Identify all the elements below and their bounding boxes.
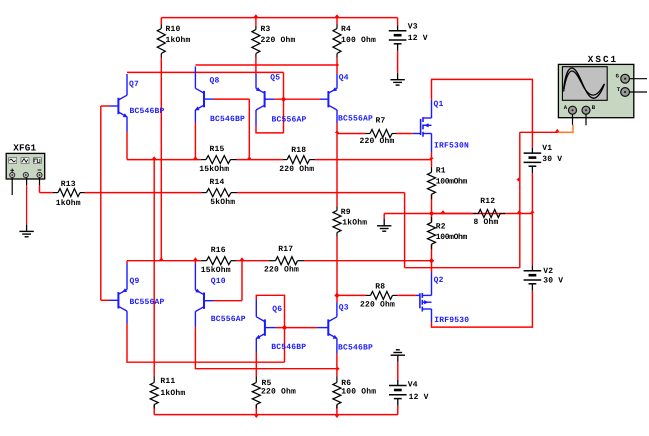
label R1 value [436, 177, 468, 186]
wire R7 lead right to Q1 gate [396, 133, 412, 135]
wire input node vertical [100, 106, 102, 300]
wire bottom rail [154, 414, 398, 416]
svg-text:BC556AP: BC556AP [211, 315, 246, 324]
label Q6 part [271, 343, 306, 352]
svg-text:R9: R9 [341, 208, 351, 217]
wire scope A orange segment [558, 125, 573, 133]
resistor R10 [157, 25, 165, 58]
transistor Q4 [320, 74, 337, 123]
label R16 value [201, 266, 231, 275]
label R14 value [210, 198, 235, 207]
junction R4 top [335, 14, 339, 17]
svg-text:G: G [616, 73, 620, 80]
wire Q10 base horizontal [214, 300, 243, 302]
label R5 [262, 379, 272, 388]
transistor Q5 [256, 74, 274, 126]
wire output ground stub [383, 214, 385, 220]
junction scope A color [555, 129, 559, 132]
label Q8 [210, 76, 220, 85]
wire feedback bottom run [405, 267, 520, 269]
wire output line [384, 213, 532, 215]
label Q4 [339, 74, 349, 83]
resistor R7 [365, 130, 396, 138]
transistor Q10 [195, 264, 213, 327]
junction bottom rail R10 [159, 257, 163, 260]
label V3 [408, 23, 418, 32]
svg-text:BC546BP: BC546BP [210, 115, 245, 124]
svg-text:R5: R5 [262, 379, 272, 388]
junction V1V2 mid [530, 210, 534, 213]
label R9 value [342, 219, 367, 228]
svg-text:R18: R18 [291, 146, 306, 155]
label V2 [543, 267, 553, 276]
transistor Q3 [317, 303, 338, 354]
svg-text:Q1: Q1 [434, 100, 444, 109]
svg-text:BC556AP: BC556AP [338, 115, 373, 124]
svg-text:R3: R3 [261, 25, 271, 34]
svg-text:220 Ohm: 220 Ohm [261, 388, 296, 397]
svg-text:R10: R10 [166, 25, 181, 34]
wire V4 top to ground [397, 362, 399, 382]
wire R6 bottom [336, 405, 338, 415]
svg-text:R1: R1 [436, 167, 446, 176]
label R2 [436, 222, 446, 231]
svg-text:XFG1: XFG1 [13, 142, 36, 153]
resistor R11 [150, 377, 158, 409]
resistor R14 [202, 189, 238, 197]
wire R5 bottom [255, 405, 257, 415]
wire Q8 base horizontal [214, 98, 250, 100]
label Q5 [270, 74, 280, 83]
svg-text:R12: R12 [480, 197, 495, 206]
wire XFG pin2 to ground [26, 185, 28, 225]
junction Q6 base node [282, 325, 287, 330]
wire R9 link lower [336, 237, 338, 303]
resistor R5 [252, 377, 260, 409]
transistor Q6 [256, 300, 276, 353]
resistor R16 [201, 257, 237, 265]
wire R4 top stub [336, 18, 338, 25]
label Q9 part [130, 298, 165, 307]
transistor Q1 IRF530N [413, 100, 432, 152]
svg-text:BC546BP: BC546BP [130, 107, 165, 116]
wire R11 bottom [153, 405, 155, 415]
resistor R9 [333, 207, 341, 237]
junction R8 gate node [334, 293, 339, 298]
label R2 value [436, 233, 468, 242]
label Q5 part [272, 116, 307, 125]
wire R4 to Q4 emitter [336, 58, 338, 75]
svg-text:100mOhm: 100mOhm [436, 233, 468, 242]
svg-text:V3: V3 [408, 23, 418, 32]
label R5 value [261, 388, 296, 397]
wire Q10 emitter rise [194, 261, 196, 264]
svg-text:B: B [592, 104, 596, 111]
wire Q10 base vertical [241, 261, 243, 301]
label R11 value [160, 389, 185, 398]
label R7 value [360, 137, 395, 146]
label V1 [542, 144, 552, 153]
resistor R2 [428, 217, 436, 249]
transistor Q2 IRF9530 [416, 273, 432, 323]
label R4 [341, 25, 351, 34]
svg-text:BC556AP: BC556AP [130, 298, 165, 307]
wire output sense vertical [519, 132, 521, 267]
svg-text:IRF9530: IRF9530 [434, 316, 469, 325]
wire Q1 drain feed [432, 79, 533, 147]
resistor R15 [201, 156, 237, 164]
label V4 value [409, 393, 429, 402]
label Q2 part [434, 316, 469, 325]
label R13 [61, 180, 76, 189]
label R1 [436, 167, 446, 176]
svg-text:Q8: Q8 [210, 76, 220, 85]
wire bias chain vertical lower [284, 328, 286, 363]
wire Q6-Q3 base link [276, 327, 317, 329]
resistor R6 [333, 377, 341, 409]
wire top emitter rail left [127, 159, 201, 161]
svg-text:220 Ohm: 220 Ohm [360, 300, 395, 309]
svg-text:R7: R7 [376, 117, 386, 126]
svg-text:220 Ohm: 220 Ohm [261, 36, 296, 45]
svg-text:R4: R4 [341, 25, 351, 34]
wire Q1 source to R1 [431, 152, 433, 167]
label R17 value [264, 266, 299, 275]
label R15 [210, 145, 225, 154]
label R14 [210, 178, 225, 187]
junction Q5 base node [281, 97, 286, 102]
wire +12V top rail [161, 17, 397, 19]
label R12 [480, 197, 495, 206]
svg-text:R8: R8 [375, 283, 385, 292]
wire V3 top stub [397, 18, 399, 26]
svg-text:15kOhm: 15kOhm [201, 266, 231, 275]
battery V2 [524, 265, 542, 290]
label R12 value [474, 218, 499, 227]
label Q1 part [434, 142, 469, 151]
label Q1 [434, 100, 444, 109]
wire Q5-Q4 base link [274, 98, 320, 100]
wire R3 to Q5 emitter [255, 58, 257, 75]
svg-text:100 Ohm: 100 Ohm [341, 36, 376, 45]
transistor Q9 [110, 264, 128, 324]
label Q3 [339, 303, 349, 312]
svg-text:IRF530N: IRF530N [434, 142, 469, 151]
label R15 value [199, 165, 229, 174]
svg-text:R14: R14 [210, 178, 225, 187]
label Q7 part [130, 107, 165, 116]
wire R6 top [336, 369, 338, 377]
wire R2 to Q2 source [431, 244, 433, 272]
label R6 [341, 379, 351, 388]
wire V1 bottom to mid [531, 173, 533, 213]
label Q10 part [211, 315, 246, 324]
label Q8 part [210, 115, 245, 124]
label R17 [278, 245, 293, 254]
resistor R1 [428, 167, 436, 199]
wire Q3 emitter drop [336, 354, 338, 369]
svg-text:Q4: Q4 [339, 74, 349, 83]
svg-text:R17: R17 [278, 245, 293, 254]
wire top emitter rail right [315, 159, 432, 161]
svg-text:R6: R6 [341, 379, 351, 388]
label R6 value [341, 388, 376, 397]
label R7 [376, 117, 386, 126]
wire R14 elbow down [404, 193, 406, 268]
svg-text:12 V: 12 V [408, 34, 428, 43]
wire Q5 collector elbow [256, 126, 284, 133]
svg-text:Q6: Q6 [272, 305, 282, 314]
svg-text:Q5: Q5 [270, 74, 280, 83]
svg-text:220 Ohm: 220 Ohm [279, 165, 314, 174]
label R4 value [341, 36, 376, 45]
wire scope A red segment [520, 131, 558, 133]
wire XFG pin1 stub [11, 178, 13, 196]
svg-text:V2: V2 [543, 267, 553, 276]
svg-text:BC546BP: BC546BP [271, 343, 306, 352]
wire Q8 collector rail y65 [195, 64, 337, 66]
wire scope B pin [585, 114, 587, 125]
svg-text:T: T [617, 86, 621, 93]
wire bottom emitter rail mid [237, 260, 270, 262]
resistor R18 [283, 156, 315, 164]
ground V3 [390, 73, 404, 85]
ground V4 [391, 350, 405, 362]
label Q7 [129, 80, 139, 89]
junction R6 bottom [335, 415, 339, 418]
wire Q9 collector drop [127, 324, 285, 363]
junction emitter rail Q1 source [429, 156, 433, 159]
wire Q7 collector rail y72 [127, 71, 284, 73]
svg-text:30 V: 30 V [542, 155, 562, 164]
junction output R1R2 [429, 211, 434, 216]
wire top emitter rail mid [237, 159, 284, 161]
wire bias chain vertical upper [283, 72, 285, 132]
label R3 value [261, 36, 296, 45]
label R8 [375, 283, 385, 292]
junction bottom rail Q10b [240, 257, 244, 260]
wire R8 lead right to Q2 gate [397, 294, 416, 296]
svg-text:15kOhm: 15kOhm [199, 165, 229, 174]
wire R13-R14 link [85, 192, 202, 194]
wire bottom emitter rail right [304, 260, 432, 262]
label R8 value [360, 300, 395, 309]
label Q2 [434, 276, 444, 285]
wire Q2 drain to V2 [432, 291, 533, 327]
wire V3 to ground [397, 51, 399, 73]
label Q3 part [338, 343, 373, 352]
svg-text:100mOhm: 100mOhm [436, 177, 468, 186]
battery V4 [389, 380, 407, 405]
label R13 value [56, 199, 81, 208]
svg-text:220 Ohm: 220 Ohm [264, 266, 299, 275]
junction R5 bottom [254, 415, 258, 418]
resistor R4 [333, 25, 341, 58]
wire Q8 base vertical [248, 99, 250, 160]
wire Q7 emitter drop [126, 132, 128, 160]
wire R9 link upper [336, 123, 338, 207]
svg-text:1kOhm: 1kOhm [56, 199, 81, 208]
wire V4 bottom stub [397, 406, 399, 415]
junction sense marker [516, 177, 519, 181]
oscilloscope XSC1 [558, 64, 647, 117]
wire scope A pin [572, 114, 574, 125]
svg-text:R2: R2 [436, 222, 446, 231]
junction R3 top [254, 14, 258, 17]
svg-text:R15: R15 [210, 145, 225, 154]
junction emitter rail R11 [152, 156, 156, 159]
svg-text:30 V: 30 V [543, 277, 563, 286]
wire Q10 collector drop [195, 327, 337, 369]
junction emitter rail Q8b [247, 156, 251, 159]
svg-text:Q3: Q3 [339, 303, 349, 312]
junction bottom rail Q10e [193, 257, 197, 260]
svg-text:Q9: Q9 [130, 277, 140, 286]
transistor Q8 [195, 67, 214, 123]
label XSC1 [588, 54, 618, 65]
battery V1 [524, 148, 542, 173]
resistor R8 [366, 291, 397, 299]
wire R14 right line [237, 192, 405, 194]
label R18 [291, 146, 306, 155]
svg-text:Q2: Q2 [434, 276, 444, 285]
junction bottom rail Q2 source [429, 258, 434, 263]
label V4 [408, 381, 418, 390]
svg-text:220 Ohm: 220 Ohm [360, 137, 395, 146]
wire R12 left lead [432, 213, 474, 215]
junction output marker [441, 210, 445, 213]
label V2 value [543, 277, 563, 286]
function generator XFG1 [6, 153, 45, 179]
wire XFG pin2 stub [26, 178, 28, 185]
junction output sense [517, 210, 521, 213]
battery V3 [389, 25, 407, 50]
svg-text:12 V: 12 V [409, 393, 429, 402]
svg-text:100 Ohm: 100 Ohm [341, 388, 376, 397]
wire R7 lead left [337, 133, 365, 135]
wire Q9 base stub [101, 299, 110, 301]
wire R13 line left [40, 192, 54, 194]
label XFG1 [13, 142, 36, 153]
wire R1 to output [431, 194, 433, 213]
junction rail y65 at R4 [336, 63, 339, 67]
wire Q8 emitter drop [194, 123, 196, 160]
svg-text:V1: V1 [542, 144, 552, 153]
junction Q3 emitter node [337, 367, 340, 371]
label R18 value [279, 165, 314, 174]
svg-text:R13: R13 [61, 180, 76, 189]
ground XFG1 [19, 225, 33, 237]
wire R8 junction lead [337, 294, 366, 296]
wire Q7 base stub [101, 105, 110, 107]
transistor Q7 [110, 74, 128, 132]
resistor R13 [53, 189, 85, 197]
label R10 [166, 25, 181, 34]
svg-text:Q10: Q10 [211, 277, 226, 286]
wire R2 top [431, 214, 433, 223]
svg-text:BC546BP: BC546BP [338, 343, 373, 352]
wire bottom emitter rail left [127, 260, 201, 262]
wire R10 drop [160, 58, 162, 261]
svg-text:R16: R16 [211, 246, 226, 255]
resistor R12 [473, 210, 505, 218]
wire V2 top from mid [531, 214, 533, 266]
svg-text:1kOhm: 1kOhm [342, 219, 367, 228]
wire Q6 emitter to R5 [255, 353, 257, 377]
label R11 [160, 377, 175, 386]
label V3 value [408, 34, 428, 43]
label V1 value [542, 155, 562, 164]
wire R10 top stub [160, 18, 162, 25]
junction emitter rail Q8e [193, 156, 197, 159]
svg-text:R11: R11 [160, 377, 175, 386]
resistor R17 [269, 257, 304, 265]
wire XFG pin3 drop [39, 185, 41, 193]
resistor R3 [252, 26, 260, 58]
svg-text:V4: V4 [408, 381, 418, 390]
svg-text:5kOhm: 5kOhm [210, 198, 235, 207]
label R3 [261, 25, 271, 34]
svg-text:Q7: Q7 [129, 80, 139, 89]
wire R3 top stub [255, 18, 257, 26]
svg-text:1kOhm: 1kOhm [160, 389, 185, 398]
svg-text:BC556AP: BC556AP [272, 116, 307, 125]
svg-text:A: A [564, 104, 568, 111]
label R9 [341, 208, 351, 217]
label Q10 [211, 277, 226, 286]
svg-text:8 Ohm: 8 Ohm [474, 218, 499, 227]
wire Q6 collector elbow [256, 295, 284, 327]
wire Q9 emitter rise [126, 261, 128, 264]
label Q6 [272, 305, 282, 314]
wire R11 tail vertical [153, 160, 155, 377]
junction R7 gate node [335, 130, 339, 133]
svg-text:XSC1: XSC1 [588, 54, 618, 65]
ground output node [377, 219, 391, 231]
label Q4 part [338, 115, 373, 124]
wire XFG pin3 stub [39, 178, 41, 185]
label Q9 [130, 277, 140, 286]
svg-text:1kOhm: 1kOhm [166, 36, 191, 45]
label R10 value [166, 36, 191, 45]
label R16 [211, 246, 226, 255]
